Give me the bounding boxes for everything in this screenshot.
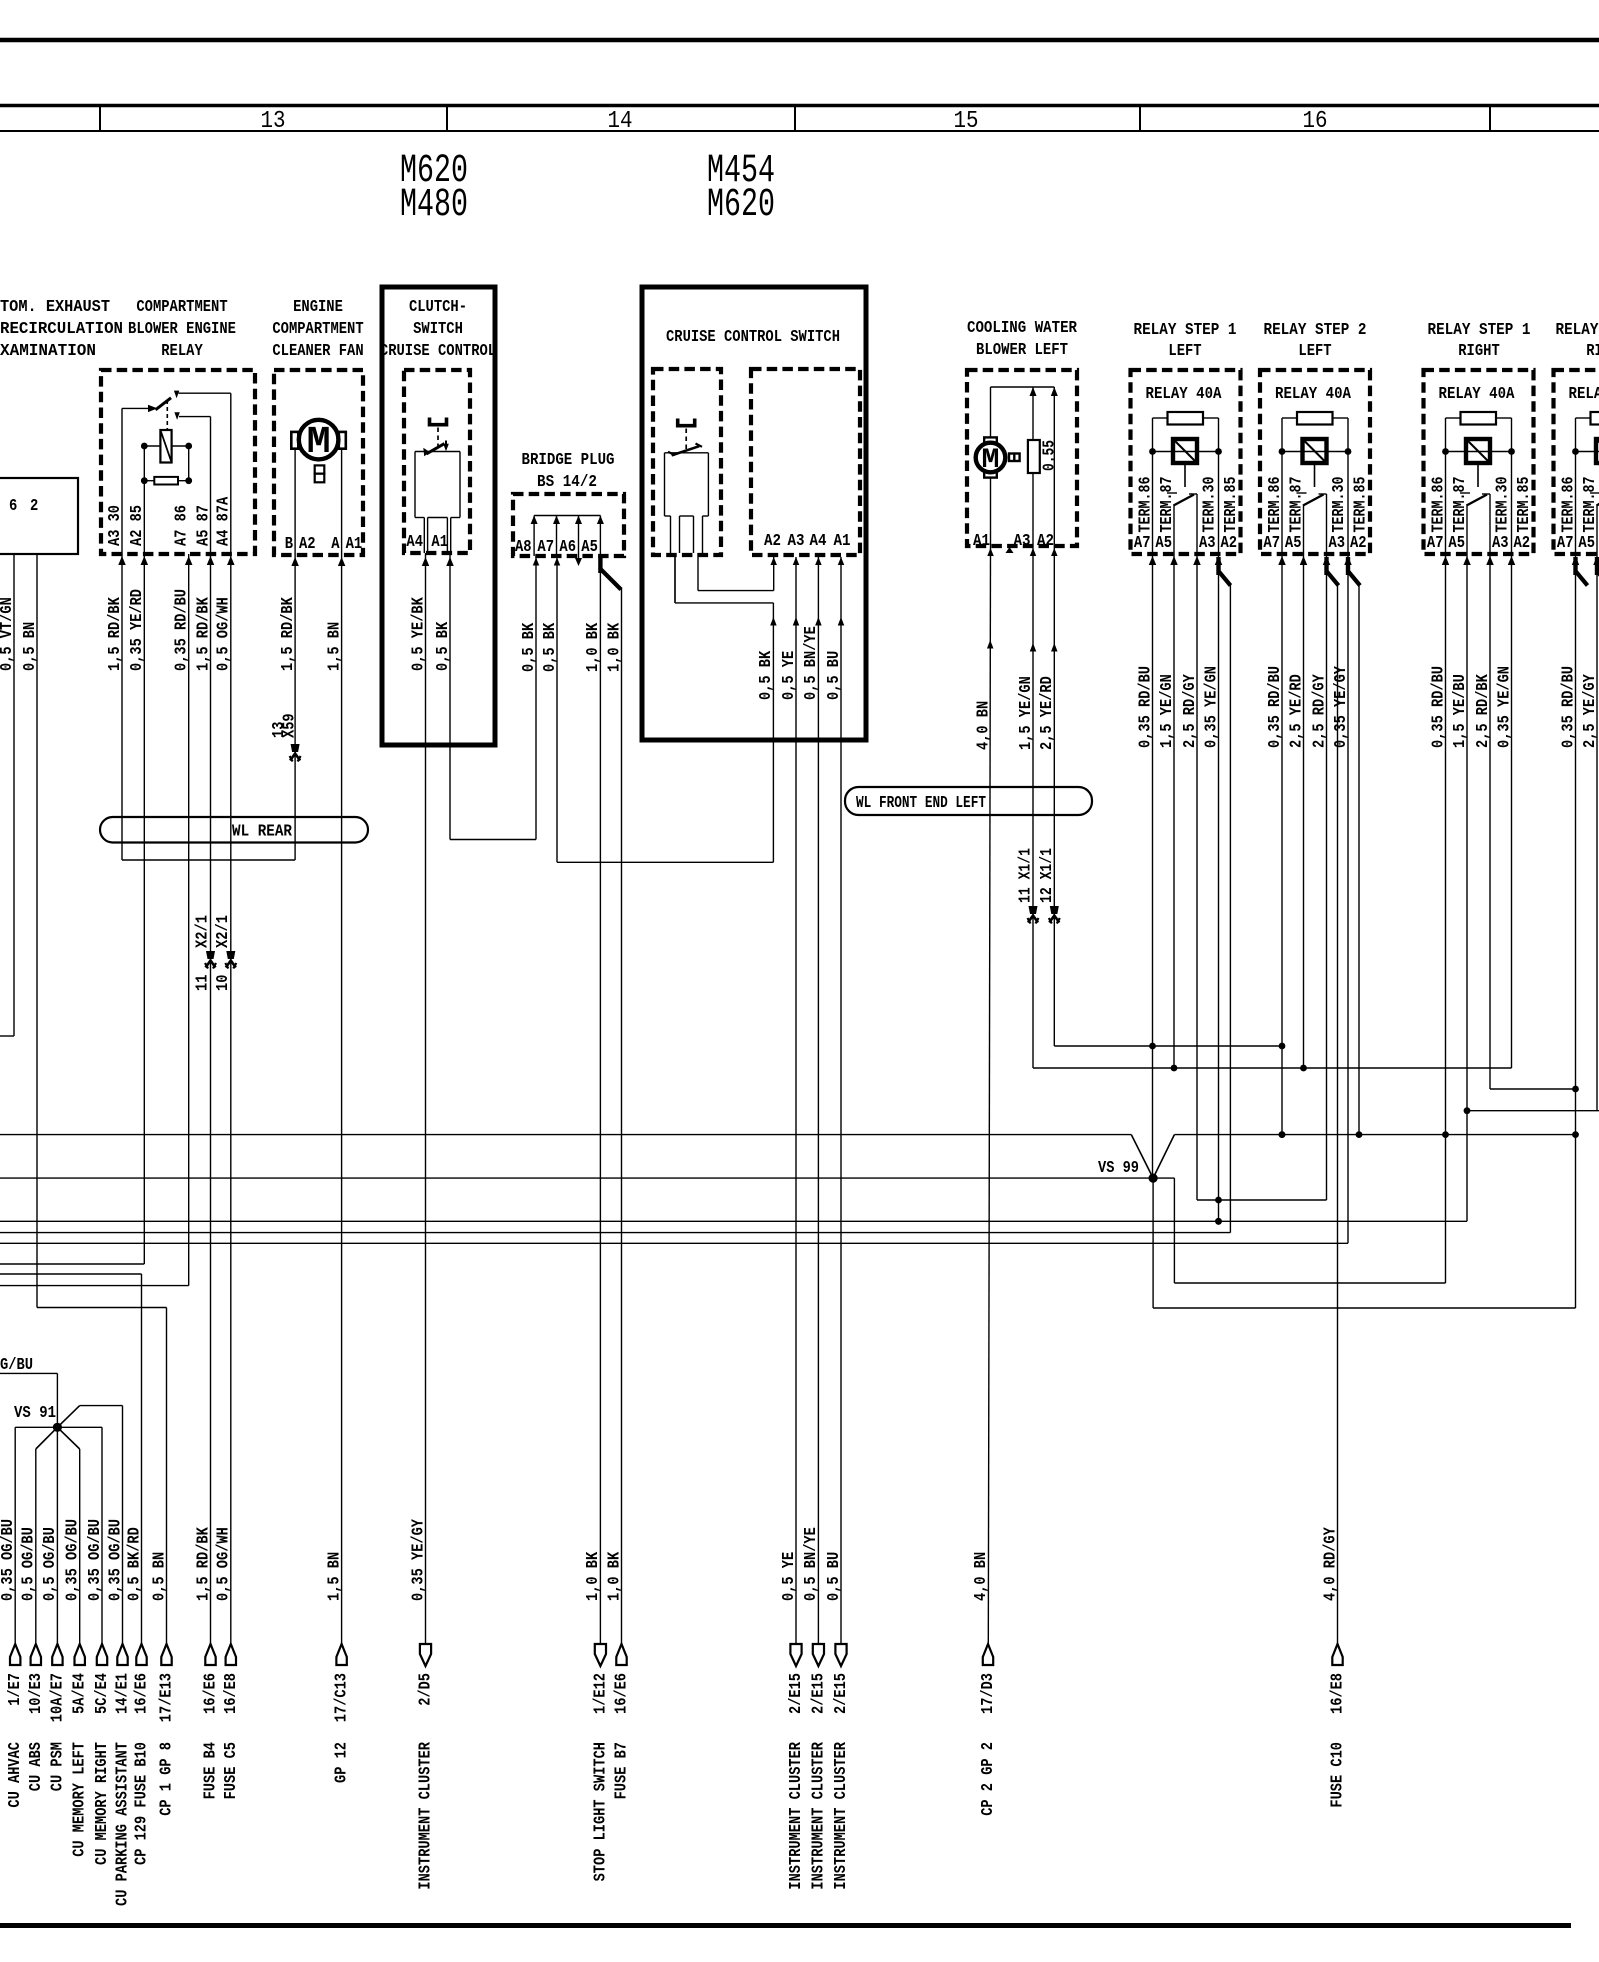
svg-text:2/E15: 2/E15 [809,1673,828,1714]
svg-text:2,5 RD/GY: 2,5 RD/GY [1310,674,1329,748]
svg-text:11 X1/1: 11 X1/1 [1017,848,1036,903]
svg-text:A5: A5 [1285,534,1302,553]
svg-text:A5: A5 [1578,534,1595,553]
svg-text:2/E15: 2/E15 [832,1673,851,1714]
svg-text:CU MEMORY RIGHT: CU MEMORY RIGHT [93,1742,112,1865]
svg-text:RELAY STEP 2: RELAY STEP 2 [1264,321,1367,340]
svg-text:6: 6 [9,497,17,516]
svg-text:A1: A1 [834,532,851,551]
svg-text:A2: A2 [1350,534,1367,553]
svg-text:A1: A1 [346,535,363,554]
svg-text:0,5 BN/YE: 0,5 BN/YE [802,1527,821,1601]
svg-text:BRIDGE PLUG: BRIDGE PLUG [522,451,615,470]
svg-text:1/E12: 1/E12 [591,1673,610,1714]
svg-text:RIGHT: RIGHT [1458,342,1500,361]
svg-text:A3 30: A3 30 [106,505,125,546]
svg-text:X2/1: X2/1 [214,915,233,948]
svg-text:A1: A1 [431,533,448,552]
svg-text:16/E8: 16/E8 [1329,1673,1348,1714]
svg-text:0,35 RD/BU: 0,35 RD/BU [1266,666,1285,748]
svg-text:CP 129 FUSE B10: CP 129 FUSE B10 [133,1742,152,1865]
svg-text:TOM. EXHAUST: TOM. EXHAUST [0,298,110,317]
svg-text:RELAY 40A: RELAY 40A [1569,385,1599,404]
svg-text:TERM.87: TERM.87 [1581,477,1599,533]
svg-text:11: 11 [194,975,213,991]
svg-text:14: 14 [608,108,633,135]
svg-text:INSTRUMENT CLUSTER: INSTRUMENT CLUSTER [787,1741,806,1889]
svg-text:2,5 RD/BK: 2,5 RD/BK [1474,674,1493,748]
svg-text:BLOWER LEFT: BLOWER LEFT [976,341,1068,360]
svg-text:TERM.86: TERM.86 [1136,477,1155,533]
svg-text:COMPARTMENT: COMPARTMENT [136,298,227,317]
svg-text:0,35 OG/BU: 0,35 OG/BU [64,1519,83,1601]
svg-text:FUSE C10: FUSE C10 [1329,1742,1348,1808]
svg-text:CP 2 GP 2: CP 2 GP 2 [979,1742,998,1816]
svg-text:CU ABS: CU ABS [27,1742,46,1791]
svg-text:RELAY STEP 1: RELAY STEP 1 [1134,321,1237,340]
svg-text:A7: A7 [1557,534,1574,553]
svg-text:A2: A2 [1514,534,1531,553]
svg-text:A5: A5 [581,538,598,557]
svg-text:COMPARTMENT: COMPARTMENT [272,320,363,339]
svg-text:INSTRUMENT CLUSTER: INSTRUMENT CLUSTER [417,1741,436,1889]
svg-text:0,35 RD/BU: 0,35 RD/BU [1559,666,1578,748]
svg-text:2,5 YE/GY: 2,5 YE/GY [1581,674,1599,748]
svg-text:WL FRONT END LEFT: WL FRONT END LEFT [856,794,986,813]
svg-text:RELAY: RELAY [161,342,203,361]
svg-text:0,35 OG/BU: 0,35 OG/BU [106,1519,125,1601]
svg-text:A2 85: A2 85 [128,505,147,546]
svg-text:17/E13: 17/E13 [158,1673,177,1722]
svg-text:TERM.87: TERM.87 [1158,477,1177,533]
svg-text:A4: A4 [406,533,423,552]
svg-text:A: A [331,535,340,554]
svg-text:TERM.86: TERM.86 [1266,477,1285,533]
svg-text:TERM.85: TERM.85 [1352,477,1371,533]
svg-text:10/E3: 10/E3 [27,1673,46,1714]
svg-text:TERM.87: TERM.87 [1287,477,1306,533]
svg-text:RIGHT: RIGHT [1586,342,1599,361]
svg-text:INSTRUMENT CLUSTER: INSTRUMENT CLUSTER [809,1741,828,1889]
svg-text:A3: A3 [788,532,805,551]
svg-text:0,5 YE: 0,5 YE [780,651,799,700]
svg-text:A3: A3 [1014,532,1031,551]
svg-text:RELAY 40A: RELAY 40A [1275,385,1352,404]
svg-text:A7 86: A7 86 [173,505,192,546]
svg-text:A4: A4 [810,532,827,551]
svg-text:0,5 BN: 0,5 BN [150,1552,169,1601]
svg-text:RELAY STEP 1: RELAY STEP 1 [1428,321,1531,340]
svg-text:12 X1/1: 12 X1/1 [1038,848,1057,903]
svg-text:0,5 BU: 0,5 BU [825,651,844,700]
svg-text:0,35 RD/BU: 0,35 RD/BU [1429,666,1448,748]
svg-text:2,5 RD/GY: 2,5 RD/GY [1181,674,1200,748]
svg-text:X2/1: X2/1 [194,915,213,948]
svg-text:1,0 BK: 1,0 BK [584,622,603,672]
svg-text:A7: A7 [1134,534,1151,553]
svg-text:LEFT: LEFT [1168,342,1201,361]
svg-text:TERM.30: TERM.30 [1330,477,1349,533]
svg-text:1,5 YE/GN: 1,5 YE/GN [1158,674,1177,748]
svg-text:CU MEMORY LEFT: CU MEMORY LEFT [71,1742,90,1857]
svg-text:CU PARKING ASSISTANT: CU PARKING ASSISTANT [114,1742,133,1906]
svg-text:A5 87: A5 87 [194,505,213,546]
svg-text:RECIRCULATION: RECIRCULATION [0,320,123,339]
svg-text:0,5 BK: 0,5 BK [541,622,560,672]
svg-text:0,35 OG/BU: 0,35 OG/BU [86,1519,105,1601]
svg-text:GP 12: GP 12 [333,1742,352,1783]
svg-text:BS 14/2: BS 14/2 [537,473,597,492]
svg-text:0,35 YE/GN: 0,35 YE/GN [1495,666,1514,748]
svg-text:FUSE C5: FUSE C5 [222,1742,241,1799]
svg-text:CU AHVAC: CU AHVAC [6,1742,25,1808]
svg-text:2,5 YE/RD: 2,5 YE/RD [1287,674,1306,748]
svg-text:CRUISE CONTROL: CRUISE CONTROL [380,342,496,361]
svg-text:A3: A3 [1329,534,1346,553]
svg-text:TERM.30: TERM.30 [1201,477,1220,533]
svg-text:16/E6: 16/E6 [133,1673,152,1714]
svg-text:1,0 BK: 1,0 BK [605,1551,624,1601]
svg-text:0,5 BN: 0,5 BN [21,622,40,671]
svg-text:2/E15: 2/E15 [787,1673,806,1714]
svg-text:0,35 OG/BU: 0,35 OG/BU [0,1519,18,1601]
svg-text:A1: A1 [973,532,990,551]
svg-text:16: 16 [1303,108,1328,135]
svg-text:5C/E4: 5C/E4 [93,1673,112,1714]
svg-text:FUSE B4: FUSE B4 [202,1742,221,1799]
svg-text:0,5 BN/YE: 0,5 BN/YE [802,626,821,700]
svg-text:CLUTCH-: CLUTCH- [409,298,467,317]
svg-text:TERM.85: TERM.85 [1222,477,1241,533]
svg-text:A2: A2 [764,532,781,551]
svg-text:10A/E7: 10A/E7 [48,1673,67,1722]
svg-text:RELAY STEP 2: RELAY STEP 2 [1556,321,1599,340]
svg-text:TERM.86: TERM.86 [1429,477,1448,533]
svg-text:COOLING WATER: COOLING WATER [967,319,1078,338]
svg-text:0,5 VT/GN: 0,5 VT/GN [0,597,17,671]
svg-text:TERM.86: TERM.86 [1559,477,1578,533]
svg-text:X59: X59 [281,713,300,738]
svg-text:WL REAR: WL REAR [232,823,293,842]
svg-text:CP 1 GP 8: CP 1 GP 8 [158,1742,177,1816]
svg-text:0,5 OG/BU: 0,5 OG/BU [20,1527,39,1601]
svg-text:RELAY 40A: RELAY 40A [1439,385,1516,404]
svg-text:0,5 BK: 0,5 BK [520,622,539,672]
svg-text:1,5 BN: 1,5 BN [325,1552,344,1601]
svg-text:0,5 YE: 0,5 YE [780,1552,799,1601]
svg-text:A4 87A: A4 87A [215,496,234,546]
svg-text:M: M [307,421,331,464]
svg-text:4,0 BN: 4,0 BN [972,1552,991,1601]
svg-text:0,35 YE/GY: 0,35 YE/GY [1332,665,1351,748]
svg-text:G/BU: G/BU [0,1356,33,1375]
svg-text:14/E1: 14/E1 [114,1673,133,1714]
svg-text:5A/E4: 5A/E4 [71,1673,90,1714]
svg-text:2/D5: 2/D5 [417,1673,436,1706]
svg-text:TERM.30: TERM.30 [1494,477,1513,533]
svg-text:15: 15 [954,108,979,135]
svg-text:0,5 BK/RD: 0,5 BK/RD [125,1527,144,1601]
svg-text:0,35 YE/GN: 0,35 YE/GN [1202,666,1221,748]
svg-text:INSTRUMENT CLUSTER: INSTRUMENT CLUSTER [832,1741,851,1889]
svg-text:CLEANER FAN: CLEANER FAN [272,342,363,361]
svg-text:A3: A3 [1492,534,1509,553]
svg-text:0,5 OG/WH: 0,5 OG/WH [215,1527,234,1601]
svg-text:TERM.85: TERM.85 [1515,477,1534,533]
svg-text:A3: A3 [1199,534,1216,553]
svg-text:1,5 YE/BU: 1,5 YE/BU [1451,674,1470,748]
svg-text:A2: A2 [1221,534,1238,553]
svg-text:LEFT: LEFT [1298,342,1331,361]
svg-text:17/C13: 17/C13 [333,1673,352,1722]
svg-text:A8: A8 [515,538,532,557]
svg-text:16/E8: 16/E8 [222,1673,241,1714]
svg-text:M480: M480 [400,183,468,228]
svg-text:VS 99: VS 99 [1098,1159,1139,1178]
svg-text:SWITCH: SWITCH [413,320,463,339]
svg-text:CRUISE CONTROL SWITCH: CRUISE CONTROL SWITCH [666,328,840,347]
svg-text:RELAY 40A: RELAY 40A [1146,385,1223,404]
svg-text:0,35 RD/BU: 0,35 RD/BU [1136,666,1155,748]
svg-text:ENGINE: ENGINE [293,298,343,317]
svg-text:A6: A6 [559,538,576,557]
svg-text:0,5 BK: 0,5 BK [434,621,453,671]
svg-text:A5: A5 [1448,534,1465,553]
svg-text:A2: A2 [1037,532,1054,551]
svg-text:XAMINATION: XAMINATION [0,342,96,361]
svg-text:17/D3: 17/D3 [979,1673,998,1714]
svg-text:0.55: 0.55 [1041,440,1060,471]
svg-text:M620: M620 [707,183,775,228]
svg-text:4,0 RD/GY: 4,0 RD/GY [1321,1527,1340,1601]
svg-text:16/E6: 16/E6 [613,1673,632,1714]
svg-text:A7: A7 [1427,534,1444,553]
svg-text:VS 91: VS 91 [14,1404,56,1423]
svg-text:0,5 YE/BK: 0,5 YE/BK [409,597,428,671]
svg-text:A2: A2 [299,535,316,554]
svg-text:16/E6: 16/E6 [202,1673,221,1714]
svg-text:CU PSM: CU PSM [48,1742,67,1791]
svg-text:STOP LIGHT SWITCH: STOP LIGHT SWITCH [591,1742,610,1881]
svg-text:1,0 BK: 1,0 BK [584,1551,603,1601]
svg-text:B: B [285,535,293,554]
svg-text:13: 13 [261,108,286,135]
svg-text:1,0 BK: 1,0 BK [605,622,624,672]
svg-text:0,5 BU: 0,5 BU [825,1552,844,1601]
svg-text:BLOWER ENGINE: BLOWER ENGINE [128,320,236,339]
svg-text:A5: A5 [1155,534,1172,553]
svg-text:FUSE B7: FUSE B7 [613,1742,632,1799]
svg-text:2: 2 [30,497,38,516]
svg-text:A7: A7 [1263,534,1280,553]
svg-text:0,5 OG/BU: 0,5 OG/BU [41,1527,60,1601]
svg-text:A7: A7 [537,538,554,557]
svg-text:TERM.87: TERM.87 [1451,477,1470,533]
svg-text:0,5 BK: 0,5 BK [757,650,776,700]
svg-text:1,5 RD/BK: 1,5 RD/BK [194,1527,213,1601]
svg-text:1/E7: 1/E7 [6,1673,25,1706]
svg-text:10: 10 [214,975,233,991]
svg-text:0,35 YE/GY: 0,35 YE/GY [409,1518,428,1601]
